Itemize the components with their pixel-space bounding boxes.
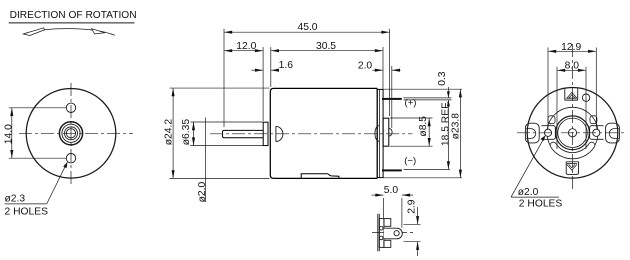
dim ø24.2 arrow up <box>172 88 175 96</box>
svg-text:14.0: 14.0 <box>3 124 14 144</box>
rear view: top tab base line2 <box>565 98 578 100</box>
svg-text:2.0: 2.0 <box>358 61 373 72</box>
rear view: hub circle inner <box>558 118 587 147</box>
dim 18.5 line <box>447 100 449 169</box>
rear view: bottom chevron outer <box>567 164 577 170</box>
svg-text:(−): (−) <box>404 156 416 167</box>
dim 14.0 arrow up <box>10 108 13 116</box>
rear view: right ear notch <box>609 129 619 139</box>
rear view: upper-left vent slot <box>548 116 555 124</box>
rear view: bottom vent slot band <box>550 142 595 159</box>
dim ø8.5 line <box>428 118 430 146</box>
ext line housing bottom (ø8.5) <box>390 145 433 147</box>
ext line terminal+ top (0.3) <box>404 97 452 99</box>
ext line detail right (5.0) <box>401 198 403 228</box>
svg-text:45.0: 45.0 <box>297 22 317 33</box>
dim 2.9 arrow down <box>416 216 419 224</box>
svg-text:2.9: 2.9 <box>406 199 417 214</box>
svg-text:ø6.35: ø6.35 <box>181 119 192 146</box>
front view: lower mounting hole <box>66 154 75 163</box>
svg-text:2 HOLES: 2 HOLES <box>5 206 49 217</box>
dim 12.9 arrow right <box>588 50 596 53</box>
rear view: bottom chevron base1 <box>567 163 577 165</box>
rear view: left screw-hole pad <box>542 126 556 140</box>
svg-text:DIRECTION OF ROTATION: DIRECTION OF ROTATION <box>10 10 137 21</box>
dim 12.0 arrow left <box>224 49 232 52</box>
svg-text:12.0: 12.0 <box>236 41 256 52</box>
dim 1.6 left approach <box>252 69 264 71</box>
ext line hub left (8.0) <box>556 67 558 149</box>
leader ø2.3 arrowhead <box>63 162 67 169</box>
leader ø2.3 line <box>47 164 67 204</box>
ext line terminal+ bottom (0.3) <box>404 99 452 101</box>
dim 45.0 arrow left <box>224 31 232 34</box>
side view: brush housing <box>383 118 389 146</box>
side view: bottom key bump <box>301 174 339 178</box>
front view: shaft boss ring outer <box>59 122 82 145</box>
terminal (+) bar <box>382 98 402 100</box>
dim 5.0 arrowR <box>402 194 410 197</box>
rear view: left ear notch <box>526 129 536 139</box>
dim 8.0 arrow left <box>557 69 565 72</box>
rear view: right mounting ear <box>606 123 620 143</box>
svg-text:(+): (+) <box>405 97 417 108</box>
ext line can top (ø24.2) <box>170 87 270 89</box>
svg-text:5.0: 5.0 <box>384 185 399 196</box>
dim 18.5 arrow down <box>447 161 450 169</box>
dim 12.0 arrow right <box>255 49 263 52</box>
side view: endcap disc <box>377 89 383 177</box>
svg-text:ø8.5: ø8.5 <box>418 116 429 137</box>
dim 2.9 arrow up <box>416 242 419 250</box>
ext line left hole (12.9) <box>547 48 549 129</box>
dim 8.0 line <box>557 69 586 71</box>
dim 14.0 arrow down <box>10 150 13 158</box>
rear view: right screw-hole pad <box>590 126 604 140</box>
ext line 45.0 right <box>389 29 391 116</box>
dim 14.0 lower extension line <box>9 157 66 159</box>
rear view horizontal centerline <box>517 132 627 134</box>
rear view: left screw hole <box>544 129 551 136</box>
front view: shaft <box>66 129 75 138</box>
leader ø2.3 underline <box>5 203 47 205</box>
svg-text:ø2.3: ø2.3 <box>5 194 26 205</box>
ext line can bottom (ø24.2) <box>170 177 270 179</box>
front view: shaft collar <box>65 127 78 140</box>
ext line housing top (ø8.5) <box>390 117 433 119</box>
dim 12.9 arrow left <box>548 50 556 53</box>
dim ø24.2 line <box>172 88 174 178</box>
rear view: raised face ring circle <box>547 107 598 158</box>
ext line bushing left (12/1.6) <box>262 47 264 121</box>
side view: shaft boss (bushing) <box>263 122 268 145</box>
dim 1.6 arrow <box>255 69 263 72</box>
front view: motor can outer circle <box>26 89 116 179</box>
dim 0.3 arrow down <box>447 91 450 98</box>
dim ø24.2 arrow down <box>172 170 175 178</box>
rear view: top chevron outer <box>567 92 577 98</box>
rear view: bottom tab top line <box>566 161 578 163</box>
ext line endcap face (30.5/2.0) <box>382 47 384 117</box>
dim 30.5 line <box>271 50 383 52</box>
rear view: left mounting ear <box>525 123 539 143</box>
rear view: upper-right vent slot <box>590 116 597 124</box>
svg-text:2 HOLES: 2 HOLES <box>519 198 563 209</box>
ext line bushing top (ø6.35) <box>190 121 263 123</box>
ext line bushing bottom (ø6.35) <box>190 145 263 147</box>
detail: terminal hole <box>394 231 399 236</box>
rear view: top tab left edge <box>564 88 566 100</box>
front view vertical centerline <box>70 83 72 186</box>
dim 5.0 left approach <box>372 194 384 196</box>
dim 0.3 arrow up <box>447 100 450 107</box>
rear view: bottom chevron inner <box>569 164 575 167</box>
front view: shaft boss ring inner <box>62 124 80 142</box>
rear view: top tab base line1 <box>567 97 576 99</box>
side view: motor can body <box>270 88 377 178</box>
detail: motor face line inner <box>378 214 380 252</box>
ext line nub right (2.0) <box>391 66 393 128</box>
dim ø8.5 arrow up <box>428 118 431 126</box>
detail: motor face line outer <box>377 214 379 252</box>
dim 1.6 right approach <box>271 69 278 71</box>
leader ø2.0 underline <box>511 196 559 198</box>
ext line endcap bottom (ø23.8) <box>383 177 462 179</box>
rear view: hub circle outer <box>556 116 590 150</box>
dim 45.0 arrow right <box>381 31 389 34</box>
dim ø6.35 arrow down <box>192 137 195 145</box>
svg-text:1.6: 1.6 <box>279 60 294 71</box>
dim ø23.8 line <box>459 89 461 178</box>
rear view: endcap outer circle <box>527 88 618 179</box>
dim ø23.8 arrow down <box>459 170 462 178</box>
detail: bracket bottom tab <box>384 240 391 247</box>
ext line shaft tip (45/12) <box>223 29 225 127</box>
dim ø6.35 line <box>193 122 195 146</box>
dim ø8.5 arrow down <box>428 138 431 146</box>
side view: can right edge <box>376 88 378 178</box>
ext line right hole (12.9) <box>595 48 597 129</box>
rear view: center shaft hole <box>568 129 576 137</box>
leader ø2.0 arrowhead <box>541 135 546 141</box>
dim 30.5 arrow right <box>375 49 383 52</box>
shaft ø2.0 extension line <box>205 118 207 203</box>
detail: bracket top tab <box>384 219 391 227</box>
dim 12.0 line <box>224 50 263 52</box>
dim ø6.35 arrow up <box>192 122 195 130</box>
detail: crimp bump upper <box>380 226 383 230</box>
leader ø2.0 line <box>511 137 545 197</box>
detail: bracket strip <box>379 219 384 248</box>
side view: rear bearing dome <box>375 126 379 142</box>
detail centerline <box>372 232 413 234</box>
svg-text:0.3: 0.3 <box>437 71 448 86</box>
dim 14.0 dimension line <box>11 108 13 158</box>
dim 2.0 left approach <box>372 69 383 71</box>
direction-of-rotation curved arrow arc <box>25 29 115 36</box>
dim ø23.8 arrow up <box>459 89 462 97</box>
ext line detail left (5.0) <box>383 198 385 218</box>
ext line terminal- (18.5) <box>404 168 451 170</box>
side view: brush housing nub <box>389 128 392 136</box>
rotation arrow left open head <box>23 28 44 36</box>
rotation arrow right open head <box>92 29 105 34</box>
dim 2.0 arrowR <box>392 69 400 72</box>
svg-text:ø2.0: ø2.0 <box>518 187 539 198</box>
dim 2.9 line upper <box>417 207 419 224</box>
front view: upper mounting hole <box>66 103 75 112</box>
dim 30.5 arrow left <box>271 49 279 52</box>
dim 2.9 line lower <box>417 242 419 256</box>
dim 5.0 right approach <box>402 194 413 196</box>
dim 0.3 line upper <box>447 87 449 98</box>
rear view: top tab base line3 <box>565 99 578 101</box>
dim 2.0 right approach <box>392 69 401 71</box>
side view: shaft <box>223 130 264 137</box>
dim 12.9 line <box>548 50 596 52</box>
detail: crimp bump lower <box>380 236 383 240</box>
detail: terminal arm <box>384 228 402 239</box>
dim 5.0 arrowL <box>375 194 383 197</box>
svg-text:ø23.8: ø23.8 <box>450 113 461 140</box>
svg-text:30.5: 30.5 <box>316 41 336 52</box>
dim 1.6 arrow2 <box>271 69 279 72</box>
rear view: top tab right edge <box>577 89 579 101</box>
side view: endcap step line <box>378 89 380 177</box>
ext line detail bottom (2.9) <box>404 241 421 243</box>
rear view vertical centerline <box>572 44 574 189</box>
dim 45.0 line <box>224 31 390 33</box>
front view horizontal centerline <box>19 132 133 134</box>
dim 8.0 arrow right <box>578 69 586 72</box>
svg-text:8.0: 8.0 <box>565 60 580 71</box>
side view: front bearing dome <box>276 126 283 141</box>
side view horizontal centerline <box>210 133 413 135</box>
svg-text:12.9: 12.9 <box>561 42 581 53</box>
rear view: terminal window circle <box>582 94 589 101</box>
terminal (-) bar <box>382 169 402 171</box>
ext line endcap top (ø23.8) <box>383 88 462 90</box>
dim 2.0 arrowL <box>375 69 383 72</box>
rear view: right screw hole <box>593 129 600 136</box>
ext line body left (30.5/1.6) <box>270 47 272 87</box>
ext line hub right (8.0) <box>585 67 587 149</box>
dim 14.0 upper extension line <box>9 107 66 109</box>
title underline <box>9 22 135 24</box>
svg-text:ø2.0: ø2.0 <box>197 182 208 203</box>
ext line detail top (2.9) <box>404 223 421 225</box>
svg-text:ø24.2: ø24.2 <box>163 119 174 146</box>
rear view: bottom tab <box>566 162 578 175</box>
rear view: top chevron inner <box>569 95 575 98</box>
